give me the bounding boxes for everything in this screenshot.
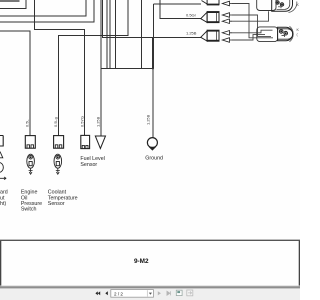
toolbar top border: [0, 285, 300, 288]
svg-text:9-M2: 9-M2: [134, 258, 149, 265]
wire Hb to 1.25B connector: [102, 0, 201, 37]
connector fuel level sensor: [81, 135, 90, 148]
toolbar icon 2: [187, 290, 193, 296]
wire coolant feed Ha: [59, 0, 129, 136]
sensor body coolant temperature: [54, 154, 62, 174]
left edge component circle with arrow: [0, 163, 6, 180]
connector oil pressure switch: [25, 136, 35, 149]
wire to top connector: [154, 3, 201, 5]
wire L4 oil pressure feed: [0, 31, 30, 136]
svg-text:1.25B: 1.25B: [146, 114, 151, 125]
wire L2 horizontal y15.8: [0, 0, 86, 16]
wire weave w2: [232, 15, 271, 36]
svg-text:2 / 2: 2 / 2: [114, 291, 123, 296]
svg-text:Ground: Ground: [145, 156, 163, 162]
wire ground bus: [101, 67, 154, 69]
svg-text:Fuel Level: Fuel Level: [80, 156, 104, 162]
toolbar last page button disabled: [167, 291, 171, 295]
wire bus drop 3: [115, 0, 117, 68]
connector 1.25B male: [201, 30, 219, 41]
terminal female arrow 1: [222, 1, 232, 6]
wire T drop 1.25B to bus: [151, 37, 153, 68]
label coolant temperature sensor: [48, 190, 78, 207]
toolbar next page button disabled: [158, 291, 161, 295]
terminal female arrow 3: [222, 19, 232, 24]
boot grommet bulb1: [257, 0, 276, 11]
svg-text:0.5L: 0.5L: [24, 119, 29, 127]
wire weave w3: [232, 11, 269, 21]
toolbar page field: [111, 290, 154, 298]
wire L1 horizontal y8.5: [0, 0, 26, 9]
svg-text:Sensor: Sensor: [80, 162, 97, 168]
toolbar icon 1: [176, 290, 182, 295]
wire weave w1: [232, 4, 273, 38]
page footer line: [0, 239, 300, 241]
label fuel level sensor: [80, 156, 104, 168]
svg-text:0.5Lg: 0.5Lg: [53, 117, 58, 127]
toolbar first page button: [95, 291, 100, 295]
connector top right male: [202, 0, 220, 5]
wire bus drop 1: [106, 0, 108, 68]
left edge component triangle: [0, 152, 3, 158]
terminal female arrow 4: [222, 31, 232, 36]
wire top right connector feed: [153, 4, 155, 68]
svg-text:Sensor: Sensor: [48, 201, 65, 207]
connector coolant sensor: [54, 136, 64, 149]
sensor body oil pressure: [27, 154, 35, 174]
wire ground circle drop: [152, 68, 154, 137]
page left edge bar: [0, 241, 1, 287]
wire bus drop 2: [109, 0, 111, 68]
boot grommet bulb2: [257, 27, 278, 42]
svg-text:Switch: Switch: [21, 207, 37, 213]
wire L3 horizontal y22: [0, 0, 94, 22]
terminal female arrow 2: [222, 13, 232, 18]
svg-text:0.5YG: 0.5YG: [80, 116, 85, 127]
svg-text:1.25B: 1.25B: [186, 31, 197, 36]
ground terminal circle: [147, 138, 157, 151]
ground triangle 1.25B: [95, 136, 105, 149]
wire weave w4: [232, 30, 273, 33]
wire fuel level feed: [35, 0, 85, 135]
toolbar background: [0, 288, 300, 300]
toolbar prev page button: [105, 291, 108, 295]
terminal female arrow 5: [222, 38, 232, 43]
svg-text:ht): ht): [0, 201, 6, 207]
svg-text:1.25B: 1.25B: [95, 116, 100, 127]
wire thick top bundle: [0, 0, 19, 2]
headlight bulb B1: [272, 0, 297, 13]
label engine oil pressure switch: [21, 190, 42, 213]
wire 0.5Gr connector feed: [160, 0, 201, 19]
page right edge bar: [299, 241, 300, 287]
node junction bus-ground: [152, 67, 154, 69]
wire weave w5: [232, 35, 265, 40]
wire ground triangle drop: [100, 0, 102, 136]
left edge component connector box: [0, 136, 3, 147]
wire bus drop 4: [141, 0, 143, 68]
toolbar combo arrow: [146, 290, 148, 296]
headlight bulb B2: [278, 26, 294, 42]
svg-text:0.5Gr: 0.5Gr: [186, 13, 197, 18]
connector 0.5Gr male: [201, 12, 219, 23]
